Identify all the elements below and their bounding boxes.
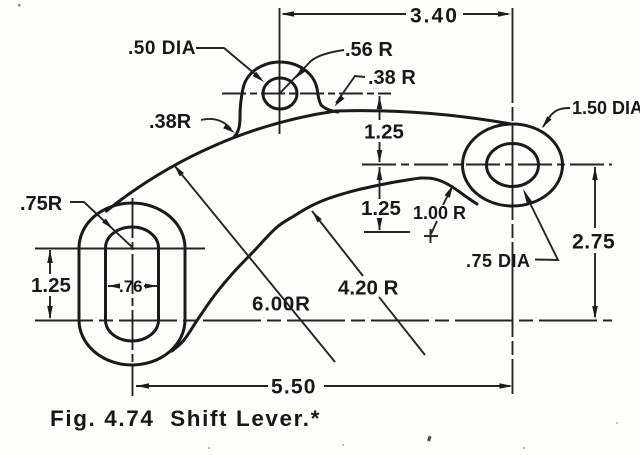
- lever top edge shallow arc to right boss: [336, 111, 511, 124]
- svg-text:1.00 R: 1.00 R: [413, 203, 466, 223]
- svg-text:1.25: 1.25: [364, 121, 404, 144]
- horizontal centerline obround upper cap: [35, 248, 205, 250]
- svg-text:.50 DIA: .50 DIA: [128, 38, 196, 59]
- svg-text:1.25: 1.25: [361, 197, 401, 220]
- dimension .76 slot width: [108, 277, 157, 296]
- obround slot: [106, 227, 159, 341]
- dimension 3.40: [281, 5, 511, 28]
- leader 1.00 R: [413, 185, 466, 243]
- leader 1.50 DIA: [542, 98, 640, 128]
- svg-text:4.20 R: 4.20 R: [338, 277, 399, 300]
- leader .75 R: [20, 193, 132, 247]
- svg-text:1.50 DIA: 1.50 DIA: [572, 98, 640, 118]
- svg-text:2.75: 2.75: [572, 231, 615, 254]
- right boss hole .75 DIA: [487, 144, 539, 187]
- top boss outline .56R: [234, 62, 338, 137]
- svg-text:1.25: 1.25: [31, 274, 71, 297]
- svg-text:6.00R: 6.00R: [252, 293, 311, 316]
- svg-text:.75R: .75R: [20, 193, 63, 215]
- svg-text:.56 R: .56 R: [345, 39, 393, 61]
- svg-text:.76: .76: [119, 277, 143, 296]
- horizontal centerline lower long: [35, 320, 612, 322]
- top boss hole .50 DIA: [263, 78, 297, 109]
- svg-text:.38 R: .38 R: [368, 67, 416, 89]
- svg-text:.75 DIA: .75 DIA: [466, 251, 531, 271]
- svg-text:3.40: 3.40: [410, 5, 459, 28]
- leader .75 DIA: [466, 189, 558, 271]
- dimension 2.75: [572, 167, 615, 319]
- leader 6.00 R: [174, 165, 335, 362]
- vertical centerline top boss: [279, 8, 281, 134]
- dimension 5.50: [136, 376, 513, 399]
- vertical centerline right boss: [512, 8, 514, 394]
- dimension 1.25 left: [31, 250, 71, 319]
- horizontal centerline top boss: [222, 93, 391, 95]
- vertical centerline obround boss: [132, 198, 134, 396]
- fillet arc 1.00R: [421, 178, 477, 204]
- leader 4.20 R: [312, 211, 425, 355]
- leader .38 R right: [335, 67, 417, 107]
- svg-text:5.50: 5.50: [271, 376, 317, 399]
- svg-text:.38R: .38R: [149, 111, 192, 133]
- dimension 1.25 upper: [364, 96, 404, 163]
- leader .50 DIA: [128, 38, 264, 82]
- leader .38 R left: [149, 111, 235, 133]
- horizontal centerline right boss: [362, 164, 612, 166]
- lever top edge arc 6.00R: [107, 111, 337, 211]
- lever bottom edge arc 4.20R: [172, 178, 421, 351]
- leader .56 R: [280, 39, 393, 93]
- caption Fig. 4.74 Shift Lever: [50, 406, 321, 431]
- dimension 1.25 middle: [361, 167, 410, 232]
- right boss outer circle 1.50 DIA: [463, 124, 563, 206]
- obround boss outer .75R: [79, 203, 185, 365]
- svg-text:Fig. 4.74 Shift Lever.*: Fig. 4.74 Shift Lever.*: [50, 406, 321, 431]
